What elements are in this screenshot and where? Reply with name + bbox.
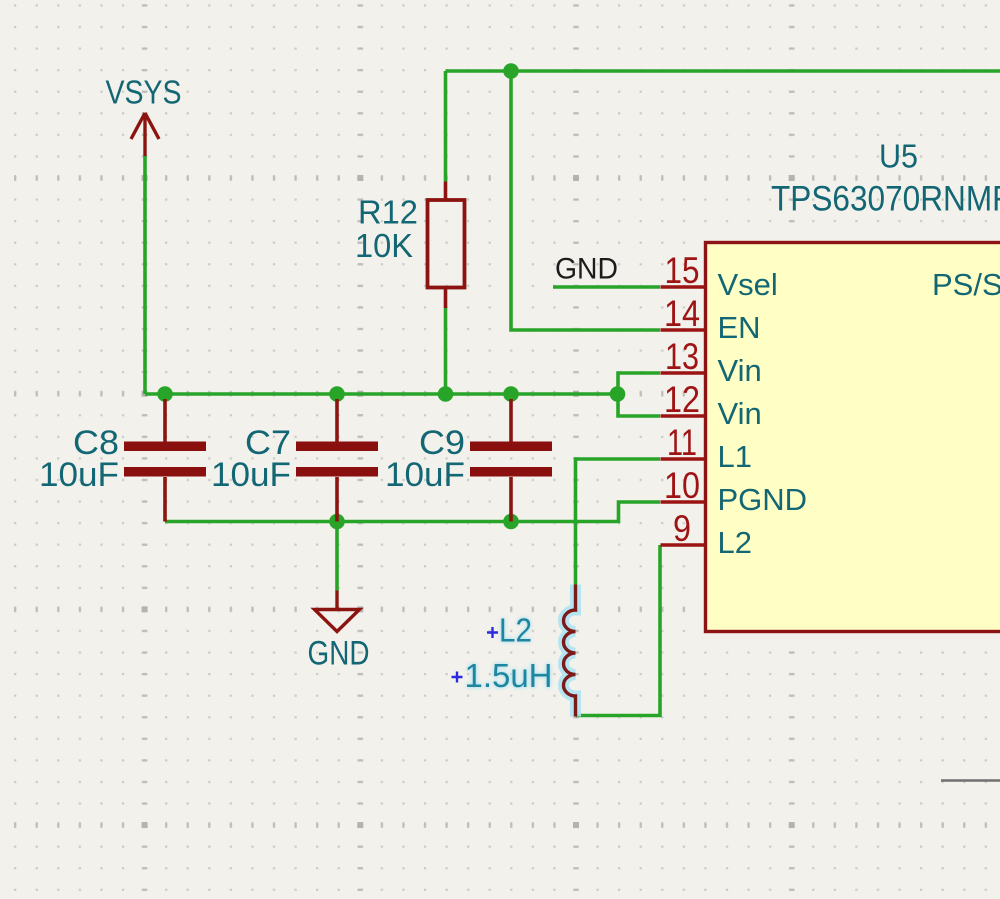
- junction bus R12: [438, 386, 454, 402]
- pin 13 Vin: [661, 371, 706, 375]
- capacitor C8 pins: [163, 399, 167, 522]
- wire R12 bottom vertical: [444, 308, 448, 394]
- capacitor C8 plates: [124, 442, 206, 452]
- pin 10 PGND: [661, 500, 706, 504]
- svg-text:14: 14: [664, 293, 700, 334]
- svg-text:VSYS: VSYS: [106, 74, 182, 111]
- wire EN drop and horizontal: [511, 71, 660, 330]
- svg-text:11: 11: [667, 422, 697, 463]
- wire Vin bus horizontal: [145, 392, 618, 396]
- svg-text:10uF: 10uF: [211, 456, 291, 494]
- svg-text:13: 13: [665, 336, 699, 377]
- svg-text:12: 12: [664, 379, 700, 420]
- svg-text:15: 15: [665, 250, 700, 291]
- junction gnd bus C9: [503, 514, 519, 530]
- svg-text:PS/SY: PS/SY: [932, 267, 1000, 302]
- wire L1 to inductor top: [576, 459, 661, 585]
- svg-text:TPS63070RNMR: TPS63070RNMR: [771, 180, 1000, 219]
- wire GND stem: [335, 522, 339, 591]
- svg-text:10uF: 10uF: [39, 456, 119, 494]
- pin 9 L2: [661, 543, 706, 547]
- inductor L2 body: [564, 585, 576, 717]
- svg-text:1.5uH: 1.5uH: [465, 657, 553, 694]
- capacitor C7 plates: [296, 442, 378, 452]
- svg-text:PGND: PGND: [718, 482, 808, 517]
- wire R12 top vertical: [444, 71, 448, 182]
- capacitor C9 plates: [470, 442, 552, 452]
- junction bus Vin jog: [610, 386, 626, 402]
- wire GND label to pin 15: [553, 285, 660, 289]
- power port GND symbol: [315, 591, 360, 632]
- junction gnd bus C7: [329, 514, 345, 530]
- svg-text:9: 9: [673, 508, 691, 549]
- wire Vin jog to pin13 and pin12: [618, 373, 660, 416]
- svg-text:U5: U5: [879, 138, 918, 175]
- junction at top wire EN drop: [503, 63, 519, 79]
- svg-text:10K: 10K: [355, 227, 413, 264]
- resistor R12 body: [428, 200, 465, 288]
- wire VSYS vertical: [143, 156, 147, 394]
- inductor L2 glow: [564, 585, 576, 717]
- svg-text:EN: EN: [718, 310, 761, 345]
- svg-text:Vsel: Vsel: [718, 267, 778, 302]
- svg-text:GND: GND: [555, 253, 618, 286]
- svg-text:L2: L2: [499, 612, 532, 649]
- resistor R1 2 pins: [444, 182, 448, 309]
- svg-text:Vin: Vin: [718, 396, 762, 431]
- pin 11 L1: [661, 457, 706, 461]
- junction bus C8: [157, 386, 173, 402]
- pin 15 Vsel: [661, 285, 706, 289]
- op-amp U5 body: [706, 243, 1000, 632]
- svg-text:10: 10: [664, 465, 700, 506]
- capacitor C7 pins: [335, 399, 339, 522]
- wire top horizontal net: [446, 69, 1000, 73]
- svg-text:10uF: 10uF: [385, 456, 465, 494]
- inductor L2 ref anchor cross: [487, 627, 498, 638]
- pin 12 Vin: [661, 414, 706, 418]
- power port VSYS arrow: [131, 113, 159, 156]
- pin 14 EN: [661, 328, 706, 332]
- partial wire bottom right: [941, 779, 1000, 782]
- junction bus C7: [329, 386, 345, 402]
- svg-text:GND: GND: [308, 635, 370, 673]
- svg-text:Vin: Vin: [718, 353, 762, 388]
- wire bottom gnd bus: [165, 502, 660, 522]
- inductor L2 value anchor cross: [452, 672, 463, 683]
- junction bus C9: [503, 386, 519, 402]
- wire L2 to inductor bottom: [576, 545, 660, 716]
- svg-text:L2: L2: [718, 525, 752, 560]
- svg-text:L1: L1: [718, 439, 752, 474]
- capacitor C9 pins: [509, 399, 513, 522]
- svg-text:R12: R12: [358, 194, 418, 231]
